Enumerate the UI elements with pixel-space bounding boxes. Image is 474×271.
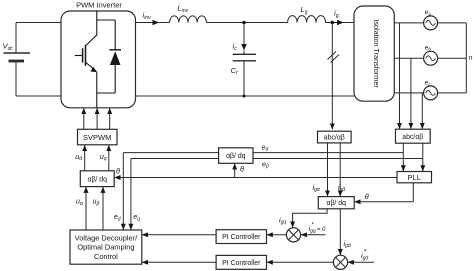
svg-text:igd: igd [344, 239, 351, 249]
svg-text:igq: igq [279, 215, 286, 225]
svg-text:θ: θ [365, 192, 369, 201]
svg-text:eb: eb [425, 44, 432, 51]
svg-text:abc/αβ: abc/αβ [324, 135, 345, 142]
svg-text:Isolation Transformer: Isolation Transformer [372, 19, 381, 88]
svg-text:ec: ec [425, 80, 432, 87]
svg-text:igα: igα [313, 183, 320, 193]
svg-text:Optimal Damping: Optimal Damping [77, 243, 134, 252]
svg-text:uβ: uβ [93, 197, 100, 207]
svg-text:n: n [469, 53, 473, 62]
svg-text:eq: eq [133, 212, 140, 222]
svg-text:θ: θ [116, 166, 120, 175]
svg-text:θ: θ [240, 165, 244, 174]
svg-text:ea: ea [425, 9, 432, 16]
svg-text:PI Controller: PI Controller [222, 260, 261, 267]
svg-text:αβ/ dq: αβ/ dq [326, 200, 346, 207]
svg-text:PI Controller: PI Controller [222, 234, 261, 241]
svg-text:ud: ud [75, 152, 82, 162]
svg-text:Linv: Linv [178, 4, 189, 15]
svg-text:eβ: eβ [262, 159, 269, 169]
svg-text:ed: ed [114, 212, 121, 222]
svg-text:abc/αβ: abc/αβ [402, 134, 423, 141]
svg-text:PWM Inverter: PWM Inverter [76, 1, 122, 10]
svg-text:PLL: PLL [408, 173, 421, 182]
svg-text:uα: uα [76, 197, 83, 207]
svg-text:αβ/ dq: αβ/ dq [226, 153, 246, 160]
svg-text:uq: uq [100, 152, 107, 162]
svg-text:igβ: igβ [338, 183, 345, 193]
svg-text:Lg: Lg [301, 5, 308, 16]
svg-text:αβ/ dq: αβ/ dq [87, 176, 107, 183]
svg-text:ig: ig [334, 8, 339, 18]
svg-text:Control: Control [94, 252, 118, 261]
svg-text:iinv: iinv [143, 10, 152, 21]
svg-text:SVPWM: SVPWM [83, 133, 111, 142]
svg-text:ic: ic [233, 41, 238, 52]
svg-text:Voltage Decoupler/: Voltage Decoupler/ [75, 233, 138, 242]
svg-text:eα: eα [262, 142, 269, 152]
svg-text:Cf: Cf [231, 66, 238, 77]
svg-text:Vdc: Vdc [3, 42, 14, 53]
